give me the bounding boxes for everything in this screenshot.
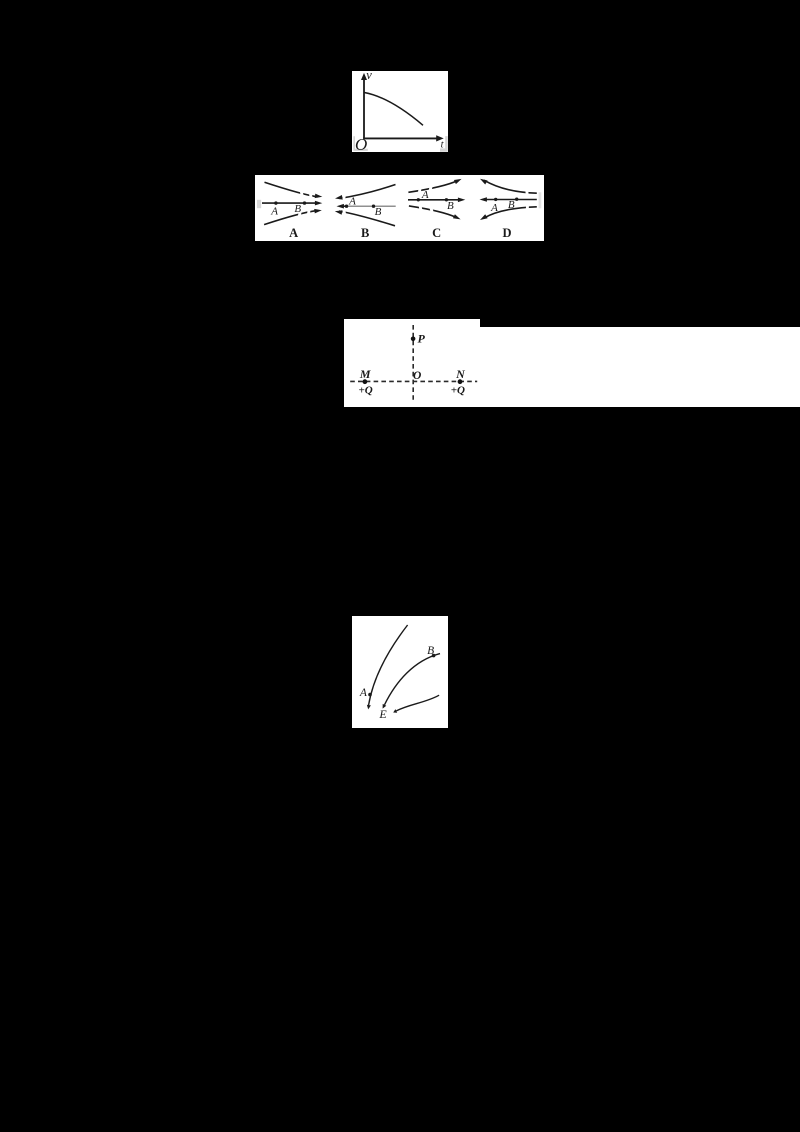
svg-text:N: N <box>455 367 466 381</box>
svg-text:+Q: +Q <box>358 385 372 397</box>
svg-text:A: A <box>359 687 368 699</box>
svg-text:v: v <box>366 68 372 82</box>
svg-text:A: A <box>289 226 298 240</box>
svg-text:+Q: +Q <box>451 385 465 397</box>
svg-text:P: P <box>418 332 426 346</box>
svg-text:B: B <box>427 645 434 657</box>
svg-text:O: O <box>355 135 367 154</box>
svg-text:B: B <box>508 199 515 211</box>
svg-text:C: C <box>432 226 441 240</box>
svg-text:B: B <box>361 226 369 240</box>
svg-text:A: A <box>421 189 429 201</box>
svg-text:D: D <box>502 226 511 240</box>
svg-text:B: B <box>294 203 301 215</box>
svg-text:B: B <box>375 206 382 218</box>
svg-text:A: A <box>348 196 356 208</box>
svg-text:E: E <box>378 707 387 721</box>
svg-text:M: M <box>359 367 371 381</box>
svg-text:B: B <box>447 200 454 212</box>
svg-text:A: A <box>490 202 498 214</box>
svg-text:A: A <box>270 206 278 218</box>
svg-text:O: O <box>413 370 421 382</box>
